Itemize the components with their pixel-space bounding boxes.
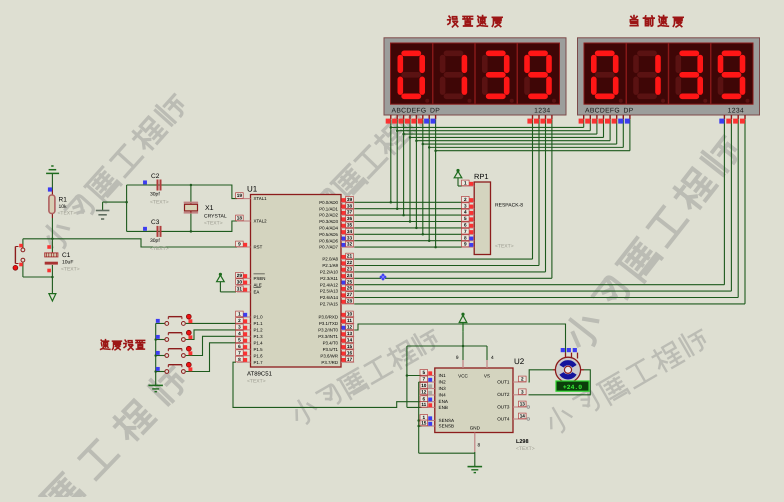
- svg-text:11: 11: [421, 402, 426, 407]
- svg-text:5: 5: [464, 216, 467, 221]
- svg-text:P0.0/AD0: P0.0/AD0: [319, 200, 338, 205]
- svg-text:13: 13: [347, 331, 353, 336]
- svg-text:13: 13: [520, 402, 526, 407]
- label 速度设置 (speed setting): [101, 340, 145, 350]
- power arrow at RP1: [454, 169, 462, 178]
- svg-text:C2: C2: [151, 173, 160, 180]
- svg-text:C1: C1: [62, 252, 71, 259]
- svg-text:32: 32: [347, 242, 353, 247]
- svg-text:P2.4/A12: P2.4/A12: [320, 282, 339, 287]
- svg-text:<TEXT>: <TEXT>: [150, 246, 169, 252]
- svg-text:DP: DP: [624, 108, 634, 115]
- svg-text:EA: EA: [254, 290, 260, 295]
- display DS1 digit pins 1-4: [527, 115, 552, 124]
- svg-text:P3.2/INT0: P3.2/INT0: [318, 328, 338, 333]
- svg-text:4: 4: [238, 331, 241, 336]
- svg-text:34: 34: [347, 229, 353, 234]
- push button (reset) left of C1: [13, 244, 25, 270]
- display DS1 segment pins A-DP: [386, 115, 436, 124]
- display DS1 digits 0139: [400, 53, 556, 102]
- net: segment bus A-DP between displays and MCU P0/RP1: [354, 120, 630, 249]
- C3 value label: [150, 246, 169, 252]
- svg-text:36: 36: [347, 216, 353, 221]
- svg-text:1: 1: [422, 415, 425, 420]
- speed set button SW4: [156, 346, 192, 357]
- U2 right pins OUT1-OUT4: [497, 376, 529, 421]
- voltage probe marker on P2.3 net: [379, 273, 386, 280]
- U1 AT89C51 body: [247, 185, 341, 378]
- svg-text:XTAL2: XTAL2: [254, 219, 268, 224]
- svg-text:30pf: 30pf: [150, 238, 160, 244]
- svg-text:9: 9: [456, 355, 459, 361]
- net: display1 digit selects to P2.0-P2.3: [354, 120, 552, 279]
- svg-text:X1: X1: [205, 205, 214, 212]
- svg-text:XTAL1: XTAL1: [254, 196, 268, 201]
- U1 value label: [247, 379, 266, 385]
- svg-text:P2.2/A10: P2.2/A10: [320, 270, 339, 275]
- net: VCC power to U2 VCC/VS/IN1/ENB: [406, 332, 487, 408]
- svg-text:OUT1: OUT1: [497, 379, 510, 384]
- svg-text:+24.0: +24.0: [563, 384, 582, 391]
- net: button4 to P1.4: [186, 343, 236, 372]
- net: RST from R1/C1 node to U1 pin 9: [52, 239, 237, 247]
- svg-text:6: 6: [238, 344, 241, 349]
- svg-text:16: 16: [347, 350, 353, 355]
- C2 value label: [150, 200, 169, 206]
- power arrow above U2: [459, 313, 467, 332]
- svg-text:P0.2/AD2: P0.2/AD2: [319, 213, 338, 218]
- svg-text:22: 22: [347, 260, 353, 265]
- svg-text:7: 7: [422, 377, 425, 382]
- net: button2 to P1.2: [186, 330, 236, 340]
- display DS1 labels ABCDEFG DP 1234: [392, 108, 551, 115]
- power arrow at EA: [217, 273, 225, 282]
- display DS2 labels ABCDEFG DP 1234: [585, 108, 744, 115]
- svg-text:P0.6/AD6: P0.6/AD6: [319, 238, 338, 243]
- svg-text:17: 17: [347, 357, 353, 362]
- title 设置速度 (set speed): [448, 16, 502, 27]
- svg-text:RP1: RP1: [474, 172, 489, 181]
- svg-text:30pf: 30pf: [150, 192, 160, 198]
- svg-text:AT89C51: AT89C51: [247, 371, 273, 378]
- U2 top pins VCC 9 and VS 4: [456, 355, 494, 379]
- speed set button SW3: [156, 330, 192, 341]
- svg-text:39: 39: [347, 197, 353, 202]
- svg-text:RST: RST: [254, 245, 263, 250]
- watermark 小飞鹰工程师 bottom-left: [0, 362, 192, 502]
- svg-text:OUT4: OUT4: [497, 416, 510, 421]
- svg-text:10: 10: [421, 383, 427, 388]
- svg-text:31: 31: [237, 287, 243, 292]
- svg-text:33: 33: [347, 235, 353, 240]
- svg-text:IN2: IN2: [439, 379, 447, 384]
- svg-text:3: 3: [464, 203, 467, 208]
- svg-text:P1.7: P1.7: [254, 360, 264, 365]
- svg-text:21: 21: [347, 254, 353, 259]
- ground (earth) near crystal: [96, 211, 110, 220]
- svg-text:12: 12: [421, 390, 427, 395]
- svg-text:P2.3/A11: P2.3/A11: [320, 276, 338, 281]
- svg-text:IN3: IN3: [439, 386, 447, 391]
- svg-text:14: 14: [347, 337, 353, 342]
- capacitor C3 30pf: [143, 219, 160, 244]
- svg-text:6: 6: [464, 223, 467, 228]
- svg-text:27: 27: [347, 292, 353, 297]
- svg-text:9: 9: [464, 242, 467, 247]
- svg-text:<TEXT>: <TEXT>: [247, 379, 266, 385]
- svg-text:ABCDEFG: ABCDEFG: [585, 108, 620, 115]
- svg-text:7: 7: [238, 350, 241, 355]
- svg-text:2: 2: [238, 318, 241, 323]
- svg-text:RESPACK-8: RESPACK-8: [495, 203, 523, 209]
- svg-text:<TEXT>: <TEXT>: [516, 446, 535, 452]
- net: U2 OUT1 to motor left: [529, 370, 554, 382]
- svg-text:26: 26: [347, 286, 353, 291]
- U2 left pins IN1-IN4 ENA ENB SENSA SENSB: [420, 370, 455, 429]
- R1 value label: [58, 211, 77, 217]
- svg-text:18: 18: [237, 216, 243, 221]
- svg-text:P1.2: P1.2: [254, 328, 264, 333]
- net: P3.2 INT0 to motor sensor: [354, 324, 565, 353]
- svg-text:4: 4: [491, 355, 494, 361]
- svg-text:P3.0/RXD: P3.0/RXD: [318, 315, 338, 320]
- svg-text:2: 2: [464, 197, 467, 202]
- svg-text:P2.1/A9: P2.1/A9: [322, 263, 338, 268]
- RP1 RESPACK-8 body: [474, 172, 523, 255]
- svg-text:P0.3/AD3: P0.3/AD3: [319, 219, 338, 224]
- motor speed readout +24.0: [556, 381, 589, 391]
- watermark 小飞鹰工程师 center-top: [289, 99, 430, 244]
- net: R1 top to ground bar: [51, 174, 53, 190]
- svg-text:P2.0/A8: P2.0/A8: [322, 257, 338, 262]
- svg-text:P0.1/AD1: P0.1/AD1: [319, 206, 338, 211]
- svg-text:P1.1: P1.1: [254, 321, 264, 326]
- svg-text:1234: 1234: [534, 108, 550, 115]
- svg-text:CRYSTAL: CRYSTAL: [204, 214, 227, 220]
- resistor R1: [48, 187, 67, 218]
- svg-text:2: 2: [521, 377, 524, 382]
- svg-text:GND: GND: [470, 426, 481, 431]
- svg-text:P2.5/A13: P2.5/A13: [320, 289, 339, 294]
- svg-text:SENSB: SENSB: [439, 423, 455, 428]
- crystal X1: [184, 203, 227, 220]
- RP1 pins 1-9: [462, 180, 475, 247]
- U2 bottom pin GND 8: [470, 426, 481, 453]
- display DS2 digit pins 1-4: [719, 115, 745, 124]
- svg-text:8: 8: [464, 235, 467, 240]
- svg-text:19: 19: [237, 193, 243, 198]
- net: P1.7 PWM to U2 ENA: [233, 362, 430, 407]
- watermark 小飞鹰工程师 left: [39, 90, 190, 253]
- svg-text:1: 1: [464, 181, 467, 186]
- svg-text:10: 10: [347, 312, 353, 317]
- svg-text:ABCDEFG: ABCDEFG: [392, 108, 427, 115]
- net: U2 IN2/SENSA/SENSB to ground: [417, 382, 474, 467]
- U1 P1.0-P1.7 pins: [236, 311, 263, 365]
- svg-text:29: 29: [237, 273, 243, 278]
- svg-text:P3.6/WR: P3.6/WR: [320, 353, 338, 358]
- net: display2 digit selects to P2.4-P2.7: [354, 120, 745, 304]
- net: EA to power arrow: [220, 282, 236, 292]
- watermark 小飞鹰工程师 right: [561, 132, 744, 353]
- svg-text:P0.7/AD7: P0.7/AD7: [319, 245, 338, 250]
- svg-text:1: 1: [238, 312, 241, 317]
- svg-text:P2.7/A15: P2.7/A15: [320, 302, 339, 307]
- svg-text:5: 5: [422, 370, 425, 375]
- U1 P3.0-P3.7 pins: [318, 311, 354, 365]
- svg-text:<TEXT>: <TEXT>: [495, 244, 514, 250]
- net: button3 to P1.3: [186, 336, 236, 355]
- svg-text:11: 11: [347, 318, 352, 323]
- svg-text:8: 8: [478, 443, 481, 449]
- net: XTAL2 to C3/X1: [147, 213, 237, 233]
- ground symbol below buttons: [148, 385, 163, 391]
- display DS1 frame: [384, 38, 566, 115]
- svg-text:35: 35: [347, 223, 353, 228]
- net: buttons common ground rail: [154, 323, 164, 385]
- svg-text:14: 14: [520, 414, 526, 419]
- watermark 小飞鹰工程师 bottom-right: [543, 325, 711, 437]
- svg-text:C3: C3: [151, 219, 160, 226]
- display DS2 segment pins A-DP: [579, 115, 630, 124]
- watermark 小飞鹰工程师 center-bottom: [289, 325, 442, 427]
- net: RP1 pin1 to power arrow: [458, 178, 462, 186]
- net: button1 to P1.1: [186, 322, 236, 324]
- svg-text:P0.4/AD4: P0.4/AD4: [319, 226, 338, 231]
- svg-text:P3.3/INT1: P3.3/INT1: [318, 334, 338, 339]
- ground arrow below C1: [49, 294, 56, 301]
- svg-text:37: 37: [347, 210, 353, 215]
- svg-text:<TEXT>: <TEXT>: [204, 221, 223, 227]
- display DS2 frame: [578, 38, 760, 115]
- svg-text:OUT3: OUT3: [497, 404, 510, 409]
- U2 L298 body: [435, 357, 529, 445]
- svg-text:7: 7: [464, 229, 467, 234]
- svg-text:U2: U2: [514, 357, 525, 366]
- svg-text:<TEXT>: <TEXT>: [58, 211, 77, 217]
- display DS2 digits 0139: [594, 53, 750, 102]
- svg-text:23: 23: [347, 267, 353, 272]
- U2 value label: [516, 446, 535, 452]
- svg-text:4: 4: [464, 210, 467, 215]
- svg-text:P0.5/AD5: P0.5/AD5: [319, 232, 338, 237]
- svg-text:U1: U1: [247, 185, 258, 194]
- svg-text:P3.7/RD: P3.7/RD: [321, 360, 338, 365]
- svg-text:P3.1/TXD: P3.1/TXD: [319, 321, 338, 326]
- svg-text:P1.4: P1.4: [254, 340, 264, 345]
- capacitor C1 10uF electrolytic: [45, 245, 74, 272]
- speed set button SW2: [156, 314, 192, 325]
- svg-text:3: 3: [238, 325, 241, 330]
- svg-text:3: 3: [521, 389, 524, 394]
- svg-text:ALE: ALE: [254, 282, 262, 287]
- svg-text:P1.6: P1.6: [254, 353, 264, 358]
- svg-text:ENB: ENB: [439, 405, 448, 410]
- svg-text:PSEN: PSEN: [254, 276, 266, 281]
- RP1 value label: [495, 244, 514, 250]
- svg-text:1234: 1234: [728, 108, 744, 115]
- capacitor C2 30pf: [143, 173, 160, 198]
- svg-text:P3.5/T1: P3.5/T1: [323, 347, 339, 352]
- svg-text:P2.6/A14: P2.6/A14: [320, 295, 339, 300]
- net: XTAL1 to C2/X1: [147, 184, 237, 203]
- svg-text:IN4: IN4: [439, 392, 447, 397]
- DC motor with encoder: [553, 348, 584, 382]
- svg-text:15: 15: [347, 344, 353, 349]
- net: R1 bottom / C1 / button / ground arrow node: [23, 218, 54, 294]
- svg-text:<TEXT>: <TEXT>: [150, 200, 169, 206]
- svg-text:P1.3: P1.3: [254, 334, 264, 339]
- svg-text:VCC: VCC: [458, 374, 468, 379]
- ground symbol above R1: [46, 166, 59, 173]
- svg-text:ENA: ENA: [439, 399, 449, 404]
- svg-text:10uF: 10uF: [62, 260, 73, 266]
- svg-text:5: 5: [238, 337, 241, 342]
- svg-text:10k: 10k: [59, 204, 68, 210]
- svg-text:6: 6: [422, 396, 425, 401]
- svg-text:SENSA: SENSA: [439, 418, 456, 423]
- svg-text:VS: VS: [484, 374, 490, 379]
- U1 P2.0-P2.7 pins: [320, 253, 354, 306]
- svg-text:9: 9: [238, 242, 241, 247]
- svg-text:L298: L298: [516, 439, 529, 445]
- C1 value label: [61, 267, 80, 273]
- U1 P0.0-P0.7 pins: [319, 196, 354, 249]
- svg-text:28: 28: [347, 299, 353, 304]
- svg-text:P1.5: P1.5: [254, 347, 264, 352]
- svg-text:8: 8: [238, 357, 241, 362]
- net: U2 OUT2 to motor right: [529, 370, 591, 395]
- svg-text:12: 12: [347, 325, 353, 330]
- svg-text:24: 24: [347, 273, 353, 278]
- svg-text:OUT2: OUT2: [497, 392, 510, 397]
- X1 value label: [204, 221, 223, 227]
- svg-text:IN1: IN1: [439, 373, 447, 378]
- svg-text:P1.0: P1.0: [254, 315, 264, 320]
- svg-text:15: 15: [421, 421, 427, 426]
- svg-text:38: 38: [347, 203, 353, 208]
- speed set button SW5: [156, 362, 192, 373]
- svg-text:<TEXT>: <TEXT>: [61, 267, 80, 273]
- svg-text:25: 25: [347, 279, 353, 284]
- svg-text:R1: R1: [59, 197, 68, 204]
- svg-text:P3.4/T0: P3.4/T0: [323, 340, 339, 345]
- ground symbol below U2: [468, 467, 483, 473]
- svg-text:DP: DP: [430, 108, 440, 115]
- svg-text:30: 30: [237, 279, 243, 284]
- title 当前速度 (current speed): [630, 16, 683, 27]
- net: crystal caps ground rail: [103, 185, 147, 231]
- U1 left pins XTAL1/XTAL2/RST/PSEN/ALE/EA: [236, 193, 268, 295]
